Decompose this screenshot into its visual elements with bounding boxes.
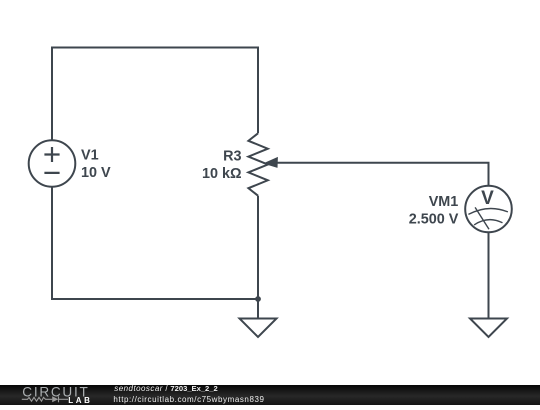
resistor R3 (potentiometer zigzag) bbox=[248, 133, 267, 195]
ground (right, under VM1) bbox=[470, 319, 507, 338]
wire voltmeter bottom bbox=[488, 232, 490, 318]
svg-text:10 kΩ: 10 kΩ bbox=[202, 166, 242, 182]
svg-text:VM1: VM1 bbox=[429, 194, 459, 210]
footer bar bbox=[0, 385, 540, 405]
svg-text:LAB: LAB bbox=[68, 396, 92, 405]
svg-text:V1: V1 bbox=[81, 148, 99, 164]
svg-text:10 V: 10 V bbox=[81, 165, 111, 181]
CircuitLab logo schematic squiggle (resistor + diode) bbox=[22, 396, 68, 402]
wire R3 bottom through junction to ground bbox=[257, 196, 259, 319]
wire R3 wiper to VM1 top bbox=[277, 163, 489, 186]
svg-text:V: V bbox=[481, 188, 494, 209]
svg-text:http://circuitlab.com/c75wbyma: http://circuitlab.com/c75wbymasn839 bbox=[113, 395, 264, 404]
ground (left, under R3) bbox=[240, 319, 277, 338]
svg-text:2.500 V: 2.500 V bbox=[409, 212, 459, 228]
wire V1 minus terminal down, along bottom to junction bbox=[52, 187, 258, 299]
svg-text:R3: R3 bbox=[223, 149, 241, 165]
node junction (V1- / R3 / ground) bbox=[255, 296, 261, 302]
wiper arrow of R3 bbox=[263, 157, 278, 168]
voltage source V1 bbox=[29, 140, 76, 187]
voltmeter VM1 bbox=[465, 186, 512, 233]
svg-text:sendtooscar / 7203_Ex_2_2: sendtooscar / 7203_Ex_2_2 bbox=[114, 384, 217, 393]
wire V1 plus terminal up, across top, down to R3 top bbox=[52, 48, 258, 141]
